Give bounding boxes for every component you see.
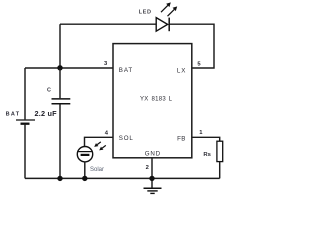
svg-text:YX: YX	[140, 96, 149, 102]
capacitor C 2.2uF	[52, 99, 71, 104]
wire battery top lead	[24, 68, 26, 119]
svg-text:LED: LED	[139, 9, 152, 15]
wire LED cathode to LX pin 5	[169, 24, 214, 68]
svg-text:C: C	[47, 87, 51, 93]
node A junction dot (BAT rail / cap / top rail)	[57, 65, 62, 70]
solar light arrow 2	[99, 145, 106, 150]
wire resistor bottom lead to rail	[219, 162, 221, 179]
resistor Rs	[217, 141, 223, 161]
svg-text:Rs: Rs	[203, 152, 211, 158]
svg-text:2: 2	[146, 165, 149, 171]
wire battery bottom lead	[24, 124, 26, 178]
solar cell	[77, 147, 92, 162]
svg-text:BAT: BAT	[119, 67, 133, 74]
svg-text:GND: GND	[145, 150, 161, 157]
wire BAT pin 3 horizontal	[25, 67, 113, 69]
IC value label YX 8183 L	[140, 96, 173, 102]
wire vertical from top rail down to node A	[59, 24, 61, 68]
svg-text:Solar: Solar	[90, 167, 104, 173]
svg-text:BAT: BAT	[6, 112, 21, 118]
solar light arrow 1	[94, 142, 101, 147]
battery BAT cell	[16, 120, 35, 124]
svg-text:SOL: SOL	[119, 135, 134, 142]
LED D1	[156, 18, 169, 32]
IC U1 YX8183L body	[113, 44, 192, 158]
svg-text:FB: FB	[177, 135, 186, 142]
wire top rail from node A to LED anode	[60, 23, 156, 25]
node D junction dot (GND pin to rail)	[149, 176, 154, 181]
ground	[144, 188, 162, 193]
wire solar cell bottom lead	[84, 162, 86, 179]
LED light arrow 2	[168, 6, 178, 16]
node C junction dot (solar to rail)	[82, 176, 87, 181]
LED light arrow 1	[161, 2, 171, 12]
wire SOL pin 4 horizontal and down to solar cell	[85, 137, 114, 146]
wire bottom ground rail	[25, 177, 220, 179]
node B junction dot (capacitor to rail)	[57, 176, 62, 181]
wire capacitor bottom lead	[59, 104, 61, 178]
svg-text:LX: LX	[177, 67, 186, 74]
wire FB pin 1 to resistor	[192, 137, 220, 141]
svg-text:2.2 uF: 2.2 uF	[35, 109, 58, 118]
svg-text:8183: 8183	[152, 96, 167, 102]
wire capacitor top lead	[59, 68, 61, 98]
wire GND pin 2 down	[151, 157, 153, 187]
